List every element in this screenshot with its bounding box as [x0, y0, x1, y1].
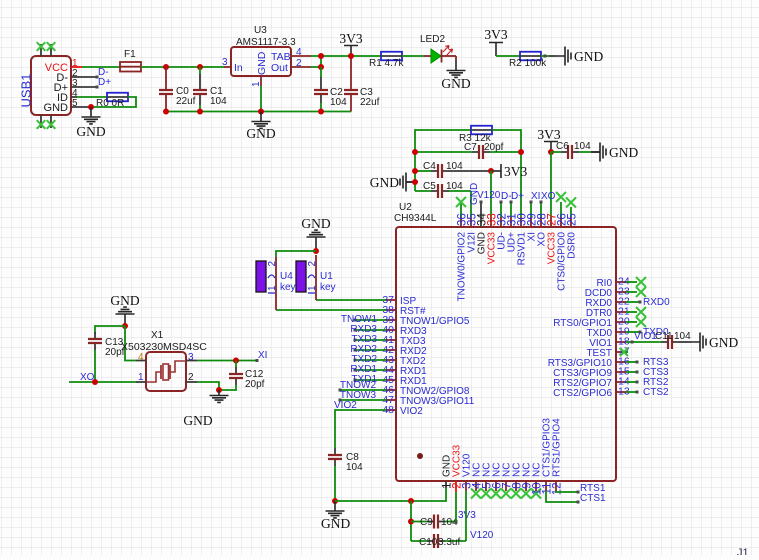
- svg-text:GND: GND: [370, 175, 399, 190]
- svg-text:3V3: 3V3: [504, 164, 527, 179]
- junction XO C13: [92, 379, 98, 385]
- svg-text:2: 2: [307, 261, 318, 267]
- wire C5 to U2 V12I pin 35: [470, 191, 472, 217]
- U2 pin 45 (RXD1) left: [386, 379, 396, 381]
- key U1: [315, 255, 317, 300]
- U2 pin 17 (TEST) right: [616, 351, 626, 353]
- USB1 shield pin top-left: [40, 44, 42, 56]
- svg-text:X1: X1: [151, 330, 164, 341]
- U2 pin 37 (ISP) left: [386, 299, 396, 301]
- svg-text:D+: D+: [98, 77, 111, 88]
- wire pin 13 CTS2: [626, 391, 637, 393]
- U2 pin 5 (NC) bottom: [485, 481, 487, 491]
- wire C11 to ground: [679, 341, 691, 343]
- U3 pin 2 lead Out: [291, 66, 311, 68]
- wire U3 GND to rail: [260, 86, 262, 112]
- svg-text:LED2: LED2: [420, 34, 445, 45]
- wire GND to C13 and X1 pin 4: [95, 326, 136, 361]
- ground symbol right of C11: [691, 333, 706, 352]
- U2 pin 35 (V12I) top: [470, 217, 472, 227]
- wire stub TNOW2 pin 46: [340, 389, 386, 391]
- ground symbol left of rail: [406, 181, 415, 183]
- wire pin 16 RTS3: [626, 361, 637, 363]
- wire pin 21 no connect: [626, 311, 637, 313]
- wire stub RXD3 pin: [355, 329, 386, 331]
- wire stub TXD2 pin: [355, 359, 386, 361]
- U2 pin 3 (V120) bottom: [465, 481, 467, 491]
- svg-text:CTS2: CTS2: [643, 387, 669, 398]
- svg-text:J1: J1: [737, 547, 749, 555]
- wire stub TXD1 pin: [355, 379, 386, 381]
- resistor R1: [381, 52, 402, 61]
- svg-text:C11: C11: [655, 331, 673, 342]
- svg-text:22uf: 22uf: [360, 97, 380, 108]
- svg-text:GND: GND: [709, 335, 738, 350]
- U3 pin 4 lead TAB: [291, 55, 311, 57]
- U2 pin 11 (CTS1/GPIO3) bottom: [545, 481, 547, 491]
- svg-text:104: 104: [346, 462, 363, 473]
- svg-text:D-: D-: [501, 191, 512, 202]
- svg-text:XO: XO: [80, 372, 95, 383]
- wire LED2 to ground: [455, 56, 457, 61]
- U2 pin 39 (TNOW1/GPIO5) left: [386, 319, 396, 321]
- svg-text:C10: C10: [419, 537, 438, 548]
- wire pin 22 RXD0: [626, 301, 639, 303]
- USB1 pin 3 lead D+: [71, 86, 96, 88]
- U2 pin 22 (RXD0) right: [616, 301, 626, 303]
- USB1 shield pin bottom-left: [40, 115, 42, 128]
- junction USB GND: [88, 104, 94, 110]
- wire pin 12 RTS1: [556, 491, 577, 492]
- svg-text:GND: GND: [574, 49, 603, 64]
- wire stub RXD1 pin: [355, 369, 386, 371]
- crystal X1 X503230MSD4SC: [146, 352, 186, 391]
- U2 pin 36 (TNOW0/GPIO2) top: [460, 217, 462, 227]
- junction C8 ground: [332, 498, 338, 504]
- svg-text:USB1: USB1: [19, 74, 34, 108]
- wire pin 18 VIO1 to C11: [626, 341, 661, 343]
- resistor R0: [107, 93, 128, 102]
- wire TAB to 3V3 node: [311, 55, 381, 57]
- U2 pin 30 (RSVD1) top: [520, 217, 522, 227]
- resistor R3: [471, 126, 492, 135]
- svg-text:key: key: [280, 282, 296, 293]
- IC U2 CH9344L body: [396, 227, 616, 481]
- power flag 3V3 at C4: [491, 170, 501, 172]
- no-connect X USB1 shield 2: [47, 42, 56, 51]
- wire VCC to F1: [82, 66, 120, 68]
- capacitor C8: [334, 447, 336, 501]
- no-connect X pin 9: [521, 489, 531, 499]
- wire pin 24 no connect: [626, 281, 637, 283]
- capacitor C11: [661, 341, 679, 343]
- U2 pin 41 (TXD3) left: [386, 339, 396, 341]
- svg-text:D+: D+: [511, 191, 524, 202]
- U2 pin 25 (DSR0) top: [570, 217, 572, 227]
- U3 pin 1 lead GND: [260, 76, 262, 86]
- wire connecting TAB and Out nodes: [320, 56, 322, 67]
- USB1 pin 2 lead D-: [71, 76, 96, 78]
- wire 3V3 down to U2 pin 27: [550, 152, 552, 217]
- U2 pin 38 (RST#) left: [386, 309, 396, 311]
- capacitor C2: [320, 67, 322, 112]
- LED2 arrows: [443, 46, 449, 53]
- wire pin 11 CTS1: [546, 491, 577, 502]
- svg-text:U3: U3: [254, 25, 267, 36]
- svg-text:104: 104: [446, 181, 463, 192]
- svg-text:U4: U4: [280, 271, 293, 282]
- capacitor C0: [165, 67, 167, 112]
- no-connect X pin 10: [531, 489, 541, 499]
- wire 3V3 to R2: [496, 55, 520, 57]
- wire C10 to U2 pin 3 V120: [465, 491, 467, 541]
- wire C6 to ground: [591, 151, 600, 153]
- U2 pin 44 (RXD1) left: [386, 369, 396, 371]
- wire left rail of R3 loop: [415, 130, 471, 191]
- U2 pin 46 (TNOW2/GPIO8) left: [386, 389, 396, 391]
- svg-text:104: 104: [210, 96, 227, 107]
- wire C9 line: [411, 521, 456, 523]
- ground rail wire under U3: [166, 111, 351, 113]
- svg-text:CTS2/GPIO6: CTS2/GPIO6: [553, 388, 612, 399]
- capacitor C10: [427, 540, 445, 542]
- U2 pin 19 (TXD0) right: [616, 331, 626, 333]
- svg-text:25: 25: [567, 213, 579, 226]
- U2 pin 31 (UD+) top: [510, 217, 512, 227]
- U2 pin 26 (CTS0/GPIO0) top: [560, 217, 562, 227]
- svg-text:3V3: 3V3: [339, 31, 362, 46]
- wire VIO2 pin 48 to C8: [335, 410, 386, 447]
- no-connect X pin 7: [501, 489, 511, 499]
- U2 pin 21 (DTR0) right: [616, 311, 626, 313]
- wire XI: [197, 360, 256, 362]
- U2 pin 29 (XI) top: [530, 217, 532, 227]
- capacitor C1: [199, 67, 201, 112]
- wire ID to R0: [77, 96, 107, 98]
- junction at C0: [163, 64, 169, 70]
- svg-text:1: 1: [307, 285, 318, 291]
- svg-text:VIO2: VIO2: [334, 400, 357, 411]
- svg-text:1: 1: [267, 285, 278, 291]
- svg-text:20pf: 20pf: [484, 142, 504, 153]
- svg-text:RXD0: RXD0: [643, 297, 670, 308]
- svg-text:104: 104: [674, 331, 691, 342]
- svg-text:3V3: 3V3: [484, 27, 507, 42]
- USB1 pin 1 lead: [71, 66, 82, 68]
- wire C10 line: [411, 540, 466, 542]
- U2 pin 23 (DCD0) right: [616, 291, 626, 293]
- regulator U3 AMS1117-3.3: [231, 47, 291, 76]
- wire C4 node to U2 VCC33 pin 33: [490, 171, 492, 217]
- resistor R2: [520, 52, 541, 61]
- wire stub TXD3 pin: [355, 339, 386, 341]
- svg-text:X503230MSD4SC: X503230MSD4SC: [121, 341, 207, 353]
- svg-text:DSR0: DSR0: [567, 232, 578, 259]
- svg-text:XO: XO: [541, 191, 556, 202]
- U2 pin 7 (NC) bottom: [505, 481, 507, 491]
- X1 pin 2 lead: [186, 381, 197, 383]
- svg-text:XI: XI: [531, 191, 540, 202]
- svg-text:2: 2: [267, 261, 278, 267]
- svg-text:C9: C9: [420, 517, 433, 528]
- wire pin 19 TXD0: [626, 331, 639, 333]
- svg-text:104: 104: [446, 161, 463, 172]
- svg-text:C6: C6: [556, 141, 569, 152]
- U2 pin 43 (TXD2) left: [386, 359, 396, 361]
- svg-text:U2: U2: [399, 202, 412, 213]
- USB1 shield pin top-right: [50, 44, 52, 56]
- U2 pin 48 (VIO2) left: [386, 409, 396, 411]
- svg-text:VIO2: VIO2: [400, 406, 423, 417]
- junction crystal ground: [216, 387, 222, 393]
- svg-text:C5: C5: [423, 181, 436, 192]
- USB1 shield pin bottom-right: [50, 115, 52, 128]
- svg-text:12: 12: [552, 483, 564, 496]
- U2 pin 27 (VCC33) top: [550, 217, 552, 227]
- wire stub TNOW3 pin 47: [340, 399, 386, 401]
- svg-text:In: In: [234, 62, 243, 74]
- svg-text:C4: C4: [423, 161, 436, 172]
- wire pin 23 no connect: [626, 291, 637, 293]
- U2 pin 13 (CTS2/GPIO6) right: [616, 391, 626, 393]
- connector USB1: [31, 56, 71, 115]
- wire R3 to right rail down to pin 30: [492, 130, 521, 217]
- junction bottom rail: [408, 498, 414, 504]
- no-connect X pin 4: [471, 489, 481, 499]
- U2 pin 6 (NC) bottom: [495, 481, 497, 491]
- junction dot inside U2: [417, 453, 423, 459]
- junction at C1: [197, 64, 203, 70]
- U2 pin 42 (RXD2) left: [386, 349, 396, 351]
- svg-text:C7: C7: [464, 142, 477, 153]
- U2 pin 9 (NC) bottom: [525, 481, 527, 491]
- capacitor C6: [561, 151, 579, 153]
- capacitor C4: [431, 170, 449, 172]
- junction XI C12: [233, 358, 239, 364]
- U2 pin 28 (XO) top: [540, 217, 542, 227]
- wire R1 to LED2: [402, 55, 424, 57]
- X1 pin 4 lead: [136, 360, 146, 362]
- svg-text:GND: GND: [609, 145, 638, 160]
- wire RST# pin 38 from key U4: [276, 309, 386, 311]
- USB1 pin 5 lead GND: [71, 106, 91, 108]
- U2 pin 14 (RTS2/GPIO7) right: [616, 381, 626, 383]
- no-connect X pin 8: [511, 489, 521, 499]
- ground symbol below crystal: [210, 390, 229, 402]
- wire X1 pin 2 to ground: [197, 382, 219, 390]
- U2 pin 34 (GND) top: [480, 203, 482, 227]
- wire stub TNOW1 pin: [355, 319, 386, 321]
- capacitor C7: [472, 151, 490, 153]
- U2 pin 32 (UD-) top: [500, 217, 502, 227]
- wire F1 to U3 In: [141, 66, 224, 68]
- U2 pin 15 (CTS3/GPIO9) right: [616, 371, 626, 373]
- svg-text:R2 100k: R2 100k: [509, 58, 547, 69]
- wire pin 14 RTS2: [626, 381, 637, 383]
- svg-text:3V3: 3V3: [458, 510, 476, 521]
- no-connect X USB1 shield 3: [37, 120, 46, 129]
- svg-text:Out: Out: [271, 62, 288, 74]
- wire pin 15 CTS3: [626, 371, 637, 373]
- junction U3 GND: [258, 109, 264, 115]
- wire ground rail to U2 pin 1: [335, 488, 446, 501]
- no-connect X pin 5: [481, 489, 491, 499]
- ground symbol above keys: [307, 230, 326, 251]
- svg-text:CTS1: CTS1: [580, 493, 606, 504]
- wire stub RXD2 pin: [355, 349, 386, 351]
- svg-text:RTS1/GPIO4: RTS1/GPIO4: [552, 418, 563, 477]
- svg-text:GND: GND: [44, 102, 69, 114]
- svg-text:U1: U1: [320, 271, 333, 282]
- svg-text:F1: F1: [124, 49, 136, 60]
- junction crystal GND: [122, 323, 128, 329]
- no-connect X USB1 shield 1: [37, 42, 46, 51]
- junction keys GND: [313, 248, 319, 254]
- wire C7 line: [415, 151, 521, 153]
- svg-text:3V3: 3V3: [537, 127, 560, 142]
- ground symbol right of R2: [556, 47, 571, 66]
- svg-text:key: key: [320, 282, 336, 293]
- wire C4 line: [415, 170, 431, 172]
- capacitor C3: [350, 56, 352, 112]
- svg-text:CH9344L: CH9344L: [394, 213, 437, 224]
- ground symbol below C8: [326, 501, 345, 518]
- capacitor C12: [219, 361, 236, 391]
- wire C9 to U2 pin 2 VCC33: [455, 492, 457, 522]
- junction 3V3 C6: [548, 149, 554, 155]
- U2 pin 47 (TNOW3/GPIO11) left: [386, 399, 396, 401]
- svg-text:GND: GND: [183, 413, 212, 428]
- U2 pin 2 (VCC33) bottom: [455, 481, 457, 492]
- U2 pin 16 (RTS3/GPIO10) right: [616, 361, 626, 363]
- crystal X1 inner symbol: [146, 361, 186, 382]
- U2 pin 12 (RTS1/GPIO4) bottom: [555, 481, 557, 491]
- svg-text:VIO1: VIO1: [634, 331, 657, 342]
- svg-text:104: 104: [574, 141, 591, 152]
- svg-text:V120: V120: [470, 530, 494, 541]
- wire left rail C9 C10: [410, 501, 412, 541]
- no-connect X USB1 shield 4: [47, 120, 56, 129]
- svg-text:20pf: 20pf: [245, 379, 265, 390]
- ground symbol above C13: [116, 307, 135, 326]
- wire R0 to GND loop: [91, 97, 136, 107]
- wire C5 line: [415, 190, 471, 192]
- svg-text:3.3uf: 3.3uf: [438, 537, 460, 548]
- LED2: [424, 55, 431, 57]
- wire ISP pin 37 from key U1: [316, 299, 386, 301]
- U2 pin 18 (VIO1) right: [616, 341, 626, 343]
- wire key GND branch: [276, 251, 316, 257]
- U3 pin 3 lead: [224, 66, 231, 68]
- U2 pin 4 (NC) bottom: [475, 481, 477, 491]
- capacitor C5: [431, 190, 449, 192]
- USB1 pin 4 lead ID: [71, 96, 77, 98]
- U2 pin 1 (GND) bottom: [445, 481, 447, 488]
- wire C6 line: [551, 151, 591, 153]
- fuse F1: [120, 66, 141, 68]
- svg-text:GND: GND: [441, 76, 470, 91]
- U2 pin 20 (RTS0/GPIO1) right: [616, 321, 626, 323]
- U2 pin 8 (NC) bottom: [515, 481, 517, 491]
- power flag 3V3 at regulator output: [344, 46, 358, 57]
- svg-text:GND: GND: [321, 516, 350, 531]
- svg-text:R1 4.7k: R1 4.7k: [369, 58, 404, 69]
- U2 pin 33 (VCC33) top: [490, 217, 492, 227]
- ground symbol below USB1: [82, 107, 101, 124]
- svg-text:GND: GND: [76, 124, 105, 139]
- wire R2 to ground: [541, 55, 549, 57]
- no-connect X pin 6: [491, 489, 501, 499]
- capacitor C9: [427, 521, 445, 523]
- svg-text:22uf: 22uf: [176, 96, 196, 107]
- key U4: [275, 257, 277, 310]
- U2 pin 40 (RXD3) left: [386, 329, 396, 331]
- capacitor C13: [94, 350, 96, 382]
- X1 pin 3 lead: [186, 360, 197, 362]
- svg-text:AMS1117-3.3: AMS1117-3.3: [236, 37, 296, 48]
- svg-text:GND: GND: [301, 216, 330, 231]
- svg-text:GND: GND: [246, 126, 275, 141]
- ground symbol below U3: [252, 112, 271, 129]
- svg-text:GND: GND: [256, 51, 268, 75]
- svg-text:GND: GND: [110, 293, 139, 308]
- U2 pin 10 (NC) bottom: [535, 481, 537, 491]
- wire pin 20 no connect: [626, 321, 637, 323]
- junction C9 rail: [408, 519, 414, 525]
- ground symbol below LED2: [447, 61, 466, 78]
- U2 pin 24 (RI0) right: [616, 281, 626, 283]
- svg-text:104: 104: [330, 97, 347, 108]
- no-connect X pin 17 TEST: [626, 351, 628, 353]
- X1 pin 1 lead XO: [136, 381, 146, 383]
- ground symbol right of C6: [591, 143, 606, 162]
- svg-text:XI: XI: [258, 350, 267, 361]
- wire Out to node: [311, 66, 321, 68]
- wire XO: [69, 381, 136, 383]
- svg-text:V120: V120: [477, 190, 501, 201]
